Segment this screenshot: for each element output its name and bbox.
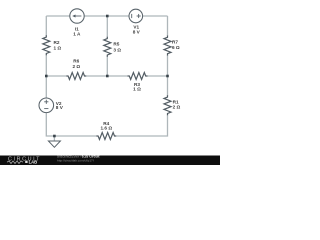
svg-text:R6: R6 — [73, 58, 79, 63]
svg-text:I1: I1 — [75, 26, 79, 31]
svg-text:1 Ω: 1 Ω — [54, 45, 62, 50]
svg-text:3 Ω: 3 Ω — [113, 48, 121, 53]
svg-text:6 Ω: 6 Ω — [172, 45, 180, 50]
svg-text:LAB: LAB — [29, 160, 38, 165]
svg-text:2 Ω: 2 Ω — [72, 64, 80, 69]
svg-text:R5: R5 — [113, 42, 119, 47]
svg-text:1 Ω: 1 Ω — [133, 87, 141, 92]
svg-text:1.6 Ω: 1.6 Ω — [101, 125, 113, 130]
svg-text:R2: R2 — [54, 40, 60, 45]
svg-text:2 Ω: 2 Ω — [173, 104, 181, 109]
svg-text:1 A: 1 A — [73, 32, 81, 37]
svg-text:http://circuitlab.com/c6y17f: http://circuitlab.com/c6y17f — [57, 158, 94, 162]
svg-text:8 V: 8 V — [56, 105, 64, 110]
svg-text:8 V: 8 V — [133, 29, 141, 34]
